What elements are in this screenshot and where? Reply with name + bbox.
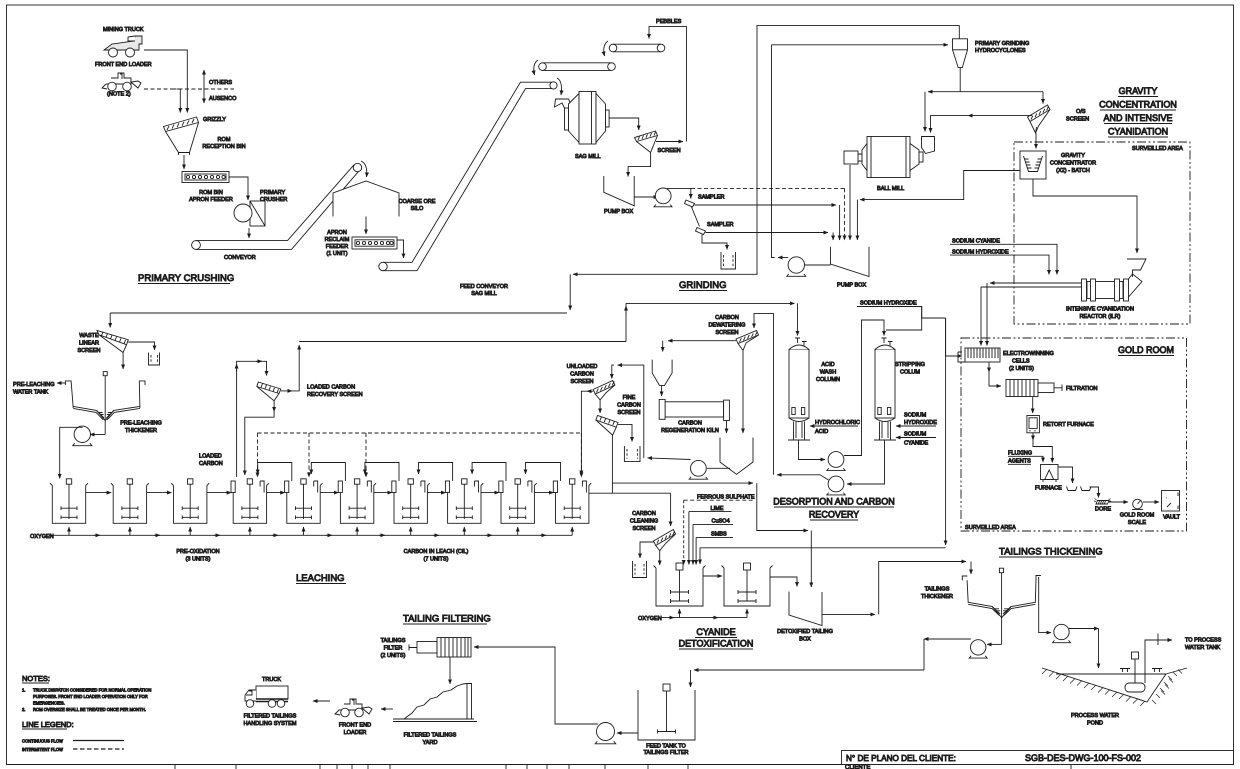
wire reclaim feeder to feed conveyor [397,240,404,258]
oxygen flow arrows detox [668,617,674,619]
svg-text:APRON: APRON [327,230,347,236]
thickener feed launder [962,576,967,580]
detoxified tailing box [789,592,822,626]
wire acid column feed drop [797,303,799,335]
label FILTERED TAILINGS HANDLING SYSTEM [243,714,296,728]
label FRONT END LOADER (yard) [339,723,371,737]
oxygen flow arrow [433,534,439,536]
oxygen riser tank [189,527,191,535]
wire hopper to kiln [661,385,663,396]
oxygen riser tank [68,527,70,535]
svg-text:SCREEN: SCREEN [715,330,738,336]
label GOLD ROOM SCALE [1120,513,1155,527]
wire thickener underflow to pump [90,434,105,436]
svg-text:TRUCK: TRUCK [262,677,281,683]
wire furnace to molds [1058,467,1073,483]
svg-text:STRIPPING: STRIPPING [895,362,925,368]
wire CIL1 to recovery screen [237,361,267,477]
svg-text:FLUXING: FLUXING [1008,451,1032,457]
DETOX-SECTION [589,318,971,643]
svg-text:HYDROXIDE: HYDROXIDE [904,420,937,426]
wire ILR to electrowinning drop 2 [980,287,982,346]
label FINE CARBON SCREEN [617,395,641,416]
wire filtration to retort [1032,397,1034,414]
dore bar [1094,499,1111,505]
leach tank 1 [50,479,88,524]
label COARSE ORE SILO [399,199,436,212]
svg-text:CYANIDATION: CYANIDATION [1108,127,1168,137]
svg-text:DETOXIFIED TAILING: DETOXIFIED TAILING [777,629,833,635]
wire loader to truck [313,700,330,702]
svg-text:INTENSIVE CYANIDATION: INTENSIVE CYANIDATION [1066,307,1134,313]
svg-text:COLUM: COLUM [900,370,920,376]
svg-text:TO PROCESS: TO PROCESS [1185,638,1222,644]
transfer arc conveyor2 to feed conveyor [534,60,538,75]
wire tank9 to tank10 [534,492,553,494]
primary grinding hydrocyclones [953,39,968,68]
carbon hook tank8 to tank7 [419,463,453,482]
label FERROUS SULPHATE [684,494,755,500]
wire tank5 to tank6 [320,492,338,494]
truck icon (tailings) [245,686,288,707]
oxygen riser tank [249,527,251,535]
leach tank 7 [392,479,430,524]
svg-text:FERROUS SULPHATE: FERROUS SULPHATE [697,494,755,500]
wire acid column bottom to pump A [799,440,826,460]
wire stripping bottom to pump B [847,440,885,484]
oxygen flow arrow [272,534,278,536]
filtered tailings yard [393,684,477,722]
label DETOXIFIED TAILING BOX [777,629,833,643]
label FEED CONVEYOR SAG MILL [460,284,508,297]
wire detox tank1 to tank2 [703,575,722,577]
label INTENSIVE CYANIDATION REACTOR (ILR) [1066,307,1134,321]
leach tank 9 [499,479,537,524]
carbon quench tank [720,438,753,475]
wire pump2 suction [805,264,831,266]
svg-text:SILO: SILO [411,206,424,212]
svg-text:THICKENER: THICKENER [125,428,157,434]
label SMBS [696,532,733,538]
filtration drum [1006,380,1062,397]
label TO PROCESS WATER TANK [1185,638,1222,652]
wire detox box to thickener [822,613,875,615]
svg-text:SODIUM CYANIDE: SODIUM CYANIDE [952,239,1000,245]
svg-text:GOLD ROOM: GOLD ROOM [1120,513,1155,519]
wire tank1 to tank2 [86,492,112,494]
wire pre-leaching water to thickener [57,382,66,384]
svg-text:DEWATERING: DEWATERING [709,323,746,329]
notes heading [22,674,50,683]
front end loader (yard) [335,699,372,717]
label SODIUM CYANIDE (strip) [904,432,929,447]
retort furnace [1027,416,1040,433]
svg-text:UNLOADED: UNLOADED [567,364,598,370]
svg-text:REACTOR (ILR): REACTOR (ILR) [1080,314,1121,320]
svg-text:VAULT: VAULT [1163,515,1181,521]
svg-text:WASH: WASH [820,370,836,376]
svg-text:FEEDER: FEEDER [326,244,349,250]
svg-text:LOADED: LOADED [199,454,222,460]
title block [842,751,1234,769]
stripping column [874,338,896,440]
svg-text:SAMPLER: SAMPLER [698,195,725,201]
title DESORPTION AND CARBON RECOVERY [773,497,895,521]
oxygen riser detox tank2 [746,609,748,618]
pump A [827,452,845,471]
wire cyclone overflow drop [569,274,571,310]
svg-text:(7 UNITS): (7 UNITS) [424,557,449,563]
label CARBON IN LEACH (CIL) (7 UNITS) [404,549,469,563]
wire sodium hydroxide to ILR [1005,255,1049,274]
wire recovery screen oversize to acid wash line [281,390,292,392]
svg-text:OTHERS: OTHERS [209,80,232,86]
svg-text:PRIMARY: PRIMARY [260,190,285,196]
dashed slurry line to ball mill pump box [691,188,845,240]
svg-text:FRONT END LOADER: FRONT END LOADER [95,62,152,68]
leach tank 6 [338,479,376,524]
wire CuSO4 [692,524,694,564]
sampler 1 tap [690,188,692,198]
svg-text:SODIUM: SODIUM [904,432,927,438]
carbon hook tank9 to tank8 [472,463,506,482]
title CYANIDE DETOXIFICATION [679,627,754,649]
THICKENING-SECTION [691,568,1222,726]
unloaded carbon screen [593,381,615,400]
primary crusher [234,201,265,226]
svg-text:SCALE: SCALE [1128,520,1146,526]
detox tank 1 [654,563,706,606]
label LOADED CARBON RECOVERY SCREEN [307,385,363,399]
svg-text:PRIMARY GRINDING: PRIMARY GRINDING [975,41,1029,47]
label GRAVITY CONCENTRATOR (X2) - BATCH [1050,153,1096,174]
label WASTE LINEAR SCREEN [77,333,100,354]
svg-text:GRAVITY: GRAVITY [1119,86,1158,96]
oxygen flow arrow [154,534,160,536]
svg-text:CONCENTRATOR: CONCENTRATOR [1050,161,1096,167]
svg-text:PRE-LEACHING: PRE-LEACHING [13,382,55,388]
svg-text:SAG MILL: SAG MILL [575,154,601,160]
svg-text:WASTE: WASTE [79,333,99,339]
svg-text:CARBON: CARBON [715,315,739,321]
svg-text:WATER TANK: WATER TANK [13,390,49,396]
gold room scale [1132,499,1143,509]
svg-text:CARBON: CARBON [199,461,223,467]
feed conveyor SAG mill [379,82,557,271]
svg-text:2.: 2. [22,707,25,712]
carbon hook tank10 to tank9 [526,463,561,482]
svg-text:APRON FEEDER: APRON FEEDER [189,197,233,203]
svg-text:SCREEN: SCREEN [632,526,655,532]
svg-text:TRUCK DISPATCH CONSIDERED FOR: TRUCK DISPATCH CONSIDERED FOR NORMAL OPE… [33,688,151,693]
thickener underflow pump [969,640,987,658]
SAG mill [565,92,610,145]
oxygen header (leach) [49,534,572,536]
svg-text:FILTER: FILTER [384,646,403,652]
svg-text:FRONT END: FRONT END [339,723,371,729]
front end loader icon [102,73,141,91]
interface OTHERS / AUSENCO [172,70,237,103]
svg-text:NOTES:: NOTES: [22,674,50,683]
svg-text:WATER TANK: WATER TANK [1185,645,1221,651]
gravity concentrator [1020,151,1046,179]
loaded carbon recovery screen [257,382,281,401]
svg-text:SGB-DES-DWG-100-FS-002: SGB-DES-DWG-100-FS-002 [1025,753,1141,763]
regenerated carbon to unloaded carbon screen [648,458,691,460]
wire mill discharge to pump box 2 [849,165,851,240]
sample collection box [721,252,736,269]
legend continuous flow [22,739,124,744]
oxygen riser tank [303,527,305,535]
pebbles return line [649,27,687,142]
grizzly / ROM reception bin [164,117,199,155]
label APRON RECLAIM FEEDER (1 UNIT) [325,230,350,257]
svg-text:THICKENER: THICKENER [921,594,953,600]
oxygen flow arrow [94,534,100,536]
wire O/S screen undersize return to mill [968,115,1028,117]
svg-text:CARBON: CARBON [617,403,641,409]
label CARBON CLEANING SCREEN [630,511,658,532]
trash box [149,353,160,366]
line legend heading [22,720,74,729]
pebbles conveyor 2 [539,63,616,71]
detox tank 2 [722,563,773,606]
wire truck to grizzly [144,50,187,113]
svg-text:(X2) - BATCH: (X2) - BATCH [1056,168,1090,174]
label PRE-OXIDATION (3 UNITS) [176,549,219,563]
note 2 [22,707,146,712]
waste linear screen [97,331,128,353]
wire sodium cyanide into stripping column [896,437,936,439]
wire pump B discharge to barren carbon riser [777,475,829,480]
svg-text:CYANIDE: CYANIDE [696,627,735,637]
svg-text:SCREEN: SCREEN [77,348,100,354]
wire eluate down to electrowinning [946,318,962,356]
SAG screen [635,131,658,153]
wire yard to loader [381,708,393,710]
wire filter pump to tailings filter [474,647,598,724]
wire ILR tails to detox [945,318,947,545]
leach tank 5 [285,479,323,524]
svg-text:DESORPTION AND CARBON: DESORPTION AND CARBON [773,497,895,507]
wire screen oversize to pebbles riser [656,141,683,143]
svg-text:GRAVITY: GRAVITY [1061,153,1085,159]
svg-text:LOADED CARBON: LOADED CARBON [307,385,355,391]
wire drop to unloaded screen [612,365,614,378]
wire lime [688,512,690,565]
oxygen header detox [661,617,747,619]
wire fluxing agents to furnace [1031,456,1043,462]
cyclone feed riser [772,45,775,258]
title GRAVITY CONCENTRATION AND INTENSIVE CYANIDATION [1099,86,1177,137]
svg-text:RECOVERY: RECOVERY [809,510,859,520]
dashed drop to tank10 [580,433,582,477]
cyclone underflow header [928,91,1043,93]
svg-text:LINEAR: LINEAR [79,341,99,347]
svg-text:SCREEN: SCREEN [1066,117,1089,123]
acid wash column [788,338,810,440]
loaded carbon line to acid wash column [626,303,795,341]
svg-text:COARSE ORE: COARSE ORE [399,199,436,205]
DESORPTION-SECTION [567,301,962,495]
label PRE-LEACHING WATER TANK [13,382,55,396]
pump 1 [654,188,672,207]
gold room boundary [961,338,1187,531]
wire sampler2 to pump box 2 [706,232,829,234]
CIL tailings header [589,492,671,494]
SAG mill feed chute [555,99,576,117]
pond pump float [1120,652,1162,692]
label TAILINGS THICKENER [921,587,953,601]
svg-text:COLUMN: COLUMN [816,377,840,383]
wire feed tank to filter pump [617,732,638,734]
vault [1162,491,1180,512]
feed tank to tailings filter [638,684,695,740]
label CARBON DEWATERING SCREEN [709,315,746,336]
wire screen undersize to pump box 1 [628,153,651,177]
wire overflow pump to pond [1069,628,1099,630]
svg-text:ROM BIN: ROM BIN [199,190,223,196]
wire recovery screen undersize return [273,401,275,412]
svg-text:FEED CONVEYOR: FEED CONVEYOR [460,284,508,290]
svg-text:CARBON: CARBON [678,421,702,427]
svg-text:CONTINUOUS FLOW: CONTINUOUS FLOW [22,739,63,744]
svg-text:ROM OVERSIZE SHALL BE TREATED: ROM OVERSIZE SHALL BE TREATED ONCE PER M… [33,707,146,712]
legend intermittent flow [22,747,124,752]
svg-text:O/S: O/S [1076,109,1086,115]
leach tank 3 [171,479,209,524]
wire waste discharge [122,353,124,370]
label CuSO4 [693,519,733,525]
ILR discharge line 2 [981,286,1082,288]
transfer arc conveyor to silo [361,161,367,177]
oxygen riser tank [571,527,573,535]
PRIMARY-CRUSHING [95,27,557,297]
transfer arc conveyor1 to conveyor2 [604,41,608,56]
svg-text:SODIUM HYDROXIDE: SODIUM HYDROXIDE [952,249,1009,255]
wire tank8 to tank9 [481,492,499,494]
svg-text:PURPOSES. FRONT END LOADER OPE: PURPOSES. FRONT END LOADER OPERATION ONL… [33,694,148,699]
svg-text:REGENERATION KILN: REGENERATION KILN [661,428,719,434]
dashed drop to tank6 [365,433,367,477]
wire dore to scale [1109,501,1128,503]
svg-text:BOX: BOX [799,637,811,643]
wire dewatering screen oversize to kiln hopper [668,340,736,342]
carbon regeneration kiln [659,399,729,420]
svg-text:RETORT FURNACE: RETORT FURNACE [1043,422,1094,428]
bottom table row [7,765,1234,769]
oxygen flow arrow [486,534,492,536]
svg-text:PRIMARY CRUSHING: PRIMARY CRUSHING [138,273,234,284]
wire bin to apron feeder [183,155,185,169]
svg-text:TAILINGS FILTER: TAILINGS FILTER [643,750,688,756]
svg-text:TAILINGS: TAILINGS [925,587,950,593]
wire pump 1 discharge [667,187,691,189]
svg-text:SCREEN: SCREEN [658,148,681,154]
svg-text:OXYGEN: OXYGEN [638,616,662,622]
tailings filter [409,638,471,658]
wire hydrochloric acid into column [810,425,858,427]
leach tank 8 [445,479,483,524]
svg-text:CLEANING: CLEANING [630,519,658,525]
wire tank4 to tank5 [267,492,285,494]
mining truck icon [104,36,142,57]
svg-text:GOLD ROOM: GOLD ROOM [1118,345,1174,355]
svg-text:AND INTENSIVE: AND INTENSIVE [1103,113,1172,123]
wire tank2 to tank3 [147,492,172,494]
label FEED TANK TO TAILINGS FILTER [643,744,688,757]
dashed drop to tank5 [308,433,310,477]
label TAILINGS FILTER (2 UNITS) [381,638,406,659]
carbon cleaning screen [654,530,676,551]
svg-text:DORE: DORE [1095,507,1111,513]
wire dewatering screen undersize [742,351,744,433]
svg-text:AUSENCO: AUSENCO [209,96,237,102]
carbon hook tank5 to tank4 [258,463,292,482]
surveilled area boundary (ILR) [1014,142,1190,324]
wire thickener underflow to pump [987,643,1002,645]
svg-text:PEBBLES: PEBBLES [656,19,682,25]
wire ILR to electrowinning drop 1 [986,283,988,346]
title GRINDING [679,280,727,291]
wire feeder to crusher [229,177,248,200]
LEACHING-SECTION [13,313,626,563]
leach feed header from grinding [110,312,567,314]
svg-text:YARD: YARD [423,740,438,746]
label O/S SCREEN [1066,109,1089,123]
svg-text:CONCENTRATION: CONCENTRATION [1099,100,1177,110]
tailings thickener [967,568,1036,644]
carbon hook tank6 to tank5 [311,463,345,482]
wire pump to leach tank 1 [60,427,83,478]
ball mill feed chute [922,137,935,154]
svg-text:SURVEILLED AREA: SURVEILLED AREA [1132,146,1183,152]
oxygen flow arrow [540,534,546,536]
eluate line to gold room [922,307,946,319]
oxygen flow arrow [326,534,332,536]
svg-text:PROCESS WATER: PROCESS WATER [1071,713,1119,719]
label LOADED CARBON [199,454,223,468]
svg-text:SCREEN: SCREEN [617,410,640,416]
svg-text:LEACHING: LEACHING [296,573,345,584]
svg-text:HYDROCYCLONES: HYDROCYCLONES [975,48,1026,54]
dashed drop to tank4 [257,433,259,477]
wire screen oversize to trash box [128,342,154,350]
svg-text:PUMP BOX: PUMP BOX [837,283,866,289]
wire SMBS [695,537,697,564]
svg-text:POND: POND [1087,721,1103,727]
svg-text:CELLS: CELLS [1012,359,1030,365]
title TAILING FILTERING [403,614,491,625]
svg-text:TAILINGS THICKENING: TAILINGS THICKENING [999,547,1103,558]
svg-text:CLIENTE: CLIENTE [845,765,870,769]
svg-text:GRINDING: GRINDING [679,280,727,291]
intensive cyanidation reactor (ILR) [1082,274,1143,301]
label FILTERED TAILINGS YARD [404,733,457,747]
pebbles conveyor 1 [609,44,665,52]
label SODIUM HYDROXIDE (ILR) [950,249,1009,255]
fine carbon box [624,446,640,462]
svg-text:TAILING FILTERING: TAILING FILTERING [403,614,491,625]
svg-text:FILTERED TAILINGS: FILTERED TAILINGS [404,733,457,739]
wire unloaded screen oversize to CIL return [587,390,593,392]
svg-text:RECOVERY SCREEN: RECOVERY SCREEN [307,392,363,398]
furnace [1041,465,1059,483]
svg-text:(1 UNIT): (1 UNIT) [326,251,347,257]
svg-text:ROM: ROM [218,137,231,143]
wire cleaning screen oversize to box [640,542,654,558]
svg-text:(2 UNITS): (2 UNITS) [381,653,406,659]
